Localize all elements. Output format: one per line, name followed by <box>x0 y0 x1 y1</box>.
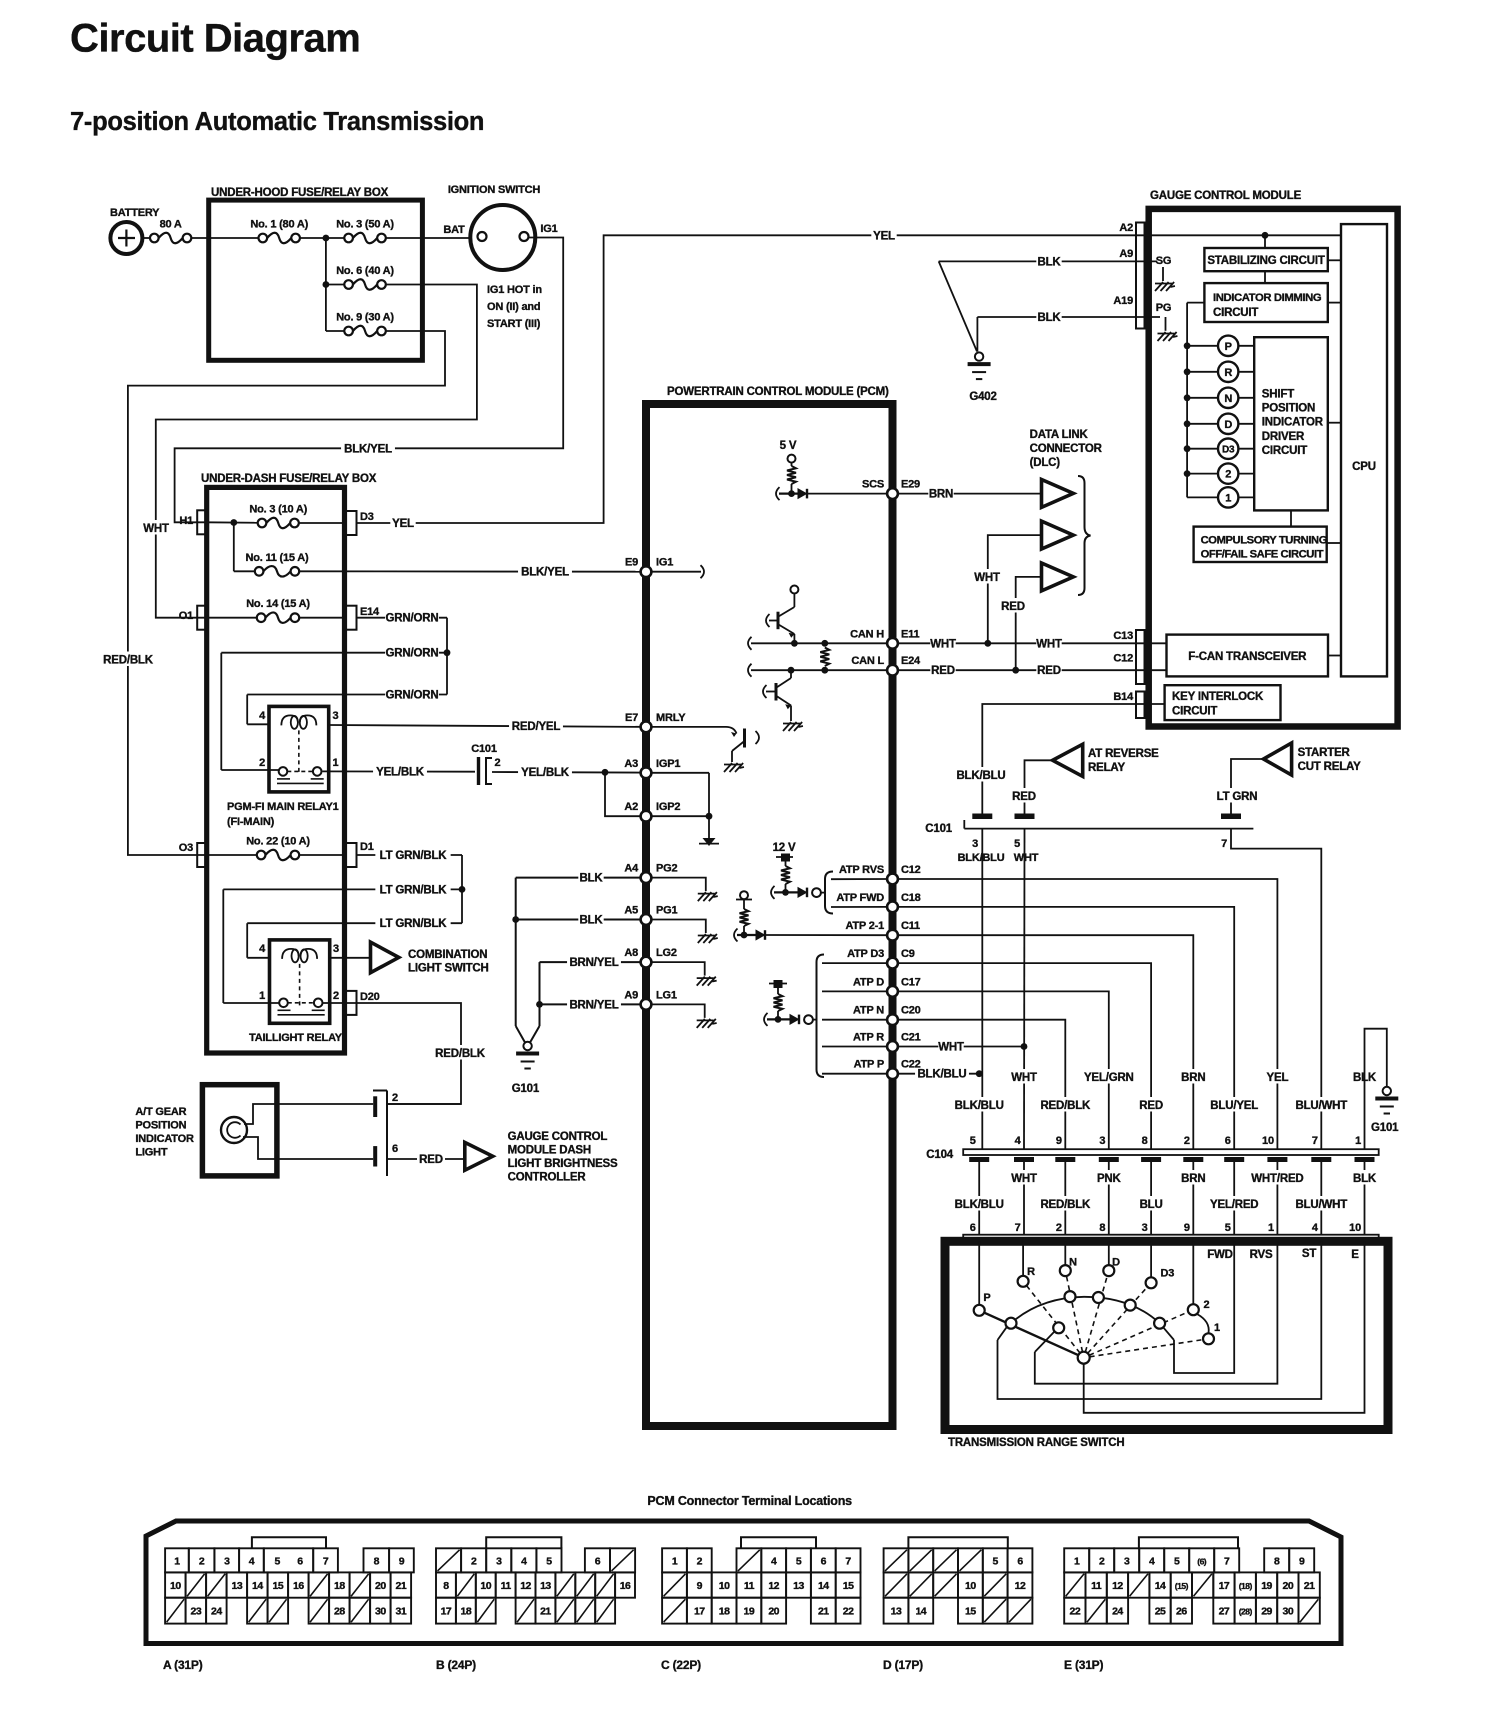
svg-text:7: 7 <box>1015 1222 1021 1234</box>
svg-text:8: 8 <box>374 1555 380 1567</box>
svg-text:11: 11 <box>744 1580 755 1592</box>
svg-text:5: 5 <box>993 1555 999 1567</box>
svg-text:N: N <box>1224 393 1232 405</box>
svg-text:WHT: WHT <box>974 572 1000 584</box>
svg-text:7: 7 <box>1221 838 1227 850</box>
svg-text:2: 2 <box>259 757 265 769</box>
svg-text:PG: PG <box>1156 302 1172 314</box>
svg-text:10: 10 <box>1349 1222 1361 1234</box>
svg-text:CIRCUIT: CIRCUIT <box>1262 445 1307 457</box>
svg-text:6: 6 <box>1225 1135 1231 1147</box>
svg-text:21: 21 <box>540 1606 551 1618</box>
svg-text:24: 24 <box>211 1606 222 1618</box>
svg-text:14: 14 <box>818 1580 829 1592</box>
svg-text:4: 4 <box>771 1555 777 1567</box>
svg-text:15: 15 <box>843 1580 854 1592</box>
svg-text:BAT: BAT <box>443 224 465 236</box>
svg-text:ATP RVS: ATP RVS <box>839 864 884 876</box>
svg-text:BLK/BLU: BLK/BLU <box>956 770 1005 782</box>
svg-text:4: 4 <box>521 1555 527 1567</box>
svg-text:12 V: 12 V <box>773 842 796 854</box>
svg-text:OFF/FAIL SAFE CIRCUIT: OFF/FAIL SAFE CIRCUIT <box>1201 549 1324 561</box>
svg-text:LIGHT BRIGHTNESS: LIGHT BRIGHTNESS <box>508 1158 618 1170</box>
svg-text:CONNECTOR: CONNECTOR <box>1030 443 1103 455</box>
svg-text:E7: E7 <box>625 712 638 724</box>
svg-text:30: 30 <box>375 1606 386 1618</box>
svg-text:LT GRN/BLK: LT GRN/BLK <box>380 884 448 896</box>
svg-text:24: 24 <box>1112 1606 1123 1618</box>
svg-text:10: 10 <box>1262 1135 1274 1147</box>
svg-text:B (24P): B (24P) <box>436 1658 476 1672</box>
svg-text:RED: RED <box>419 1154 443 1166</box>
svg-text:A2: A2 <box>1119 222 1133 234</box>
svg-text:2: 2 <box>333 990 339 1002</box>
svg-text:C13: C13 <box>1113 630 1133 642</box>
svg-text:C104: C104 <box>926 1149 953 1161</box>
svg-text:3: 3 <box>333 943 339 955</box>
svg-text:16: 16 <box>620 1580 631 1592</box>
svg-text:14: 14 <box>1155 1580 1166 1592</box>
svg-text:IGNITION SWITCH: IGNITION SWITCH <box>448 184 541 196</box>
svg-text:21: 21 <box>396 1580 407 1592</box>
svg-text:IG1: IG1 <box>540 223 557 235</box>
svg-text:1: 1 <box>333 757 339 769</box>
svg-text:CAN L: CAN L <box>851 655 884 667</box>
svg-text:A4: A4 <box>624 863 639 875</box>
svg-text:10: 10 <box>965 1580 976 1592</box>
svg-text:20: 20 <box>768 1606 779 1618</box>
svg-text:(DLC): (DLC) <box>1030 457 1061 469</box>
svg-text:RED: RED <box>1001 601 1025 613</box>
svg-text:BLU: BLU <box>1140 1199 1163 1211</box>
svg-text:PCM Connector Terminal Locatio: PCM Connector Terminal Locations <box>647 1494 852 1508</box>
svg-text:CIRCUIT: CIRCUIT <box>1213 307 1258 319</box>
svg-text:25: 25 <box>1155 1606 1166 1618</box>
svg-text:D (17P): D (17P) <box>883 1658 923 1672</box>
svg-text:14: 14 <box>915 1606 926 1618</box>
svg-text:19: 19 <box>1261 1580 1272 1592</box>
svg-text:R: R <box>1224 367 1232 379</box>
svg-text:30: 30 <box>1283 1606 1294 1618</box>
svg-text:YEL: YEL <box>392 518 414 530</box>
svg-text:IGP2: IGP2 <box>656 801 680 813</box>
svg-text:BLU/YEL: BLU/YEL <box>1210 1100 1258 1112</box>
svg-text:RED/YEL: RED/YEL <box>512 721 561 733</box>
svg-text:29: 29 <box>1261 1606 1272 1618</box>
svg-text:A/T GEAR: A/T GEAR <box>135 1106 186 1118</box>
svg-text:C9: C9 <box>901 948 915 960</box>
svg-text:A3: A3 <box>624 758 638 770</box>
svg-text:18: 18 <box>719 1606 730 1618</box>
svg-text:ON (II) and: ON (II) and <box>487 301 540 313</box>
svg-text:C (22P): C (22P) <box>661 1658 701 1672</box>
svg-text:BRN/YEL: BRN/YEL <box>569 999 618 1011</box>
svg-text:C101: C101 <box>471 743 497 755</box>
svg-text:12: 12 <box>768 1580 779 1592</box>
svg-text:80 A: 80 A <box>160 219 182 231</box>
svg-text:UNDER-HOOD FUSE/RELAY BOX: UNDER-HOOD FUSE/RELAY BOX <box>211 187 389 199</box>
svg-text:BLK: BLK <box>1037 256 1061 268</box>
svg-text:LT GRN: LT GRN <box>1217 791 1258 803</box>
svg-text:31: 31 <box>396 1606 407 1618</box>
svg-text:19: 19 <box>744 1606 755 1618</box>
svg-text:5: 5 <box>796 1555 802 1567</box>
svg-text:BRN/YEL: BRN/YEL <box>569 957 618 969</box>
svg-text:2: 2 <box>495 757 501 769</box>
svg-text:13: 13 <box>891 1606 902 1618</box>
svg-text:2: 2 <box>697 1555 703 1567</box>
svg-text:INDICATOR: INDICATOR <box>135 1133 194 1145</box>
svg-text:ATP R: ATP R <box>853 1032 884 1044</box>
svg-text:IGP1: IGP1 <box>656 758 680 770</box>
svg-text:MRLY: MRLY <box>656 712 686 724</box>
svg-text:A9: A9 <box>1119 248 1133 260</box>
svg-text:1: 1 <box>1074 1555 1080 1567</box>
svg-text:21: 21 <box>818 1606 829 1618</box>
svg-text:8: 8 <box>443 1580 449 1592</box>
svg-text:FWD: FWD <box>1207 1249 1233 1261</box>
svg-text:1: 1 <box>1355 1135 1361 1147</box>
svg-text:RELAY: RELAY <box>1088 762 1125 774</box>
svg-text:C17: C17 <box>901 976 921 988</box>
svg-text:23: 23 <box>191 1606 202 1618</box>
svg-text:15: 15 <box>273 1580 284 1592</box>
svg-text:5: 5 <box>1014 838 1020 850</box>
svg-text:BLU/WHT: BLU/WHT <box>1295 1100 1347 1112</box>
svg-text:2: 2 <box>392 1092 398 1104</box>
svg-text:C18: C18 <box>901 892 921 904</box>
svg-text:20: 20 <box>375 1580 386 1592</box>
svg-text:1: 1 <box>1214 1322 1220 1334</box>
svg-text:1: 1 <box>1268 1222 1274 1234</box>
svg-text:RED/BLK: RED/BLK <box>1040 1199 1091 1211</box>
svg-text:POWERTRAIN CONTROL MODULE (PCM: POWERTRAIN CONTROL MODULE (PCM) <box>667 386 889 398</box>
svg-text:5: 5 <box>274 1555 280 1567</box>
svg-text:DATA LINK: DATA LINK <box>1030 429 1089 441</box>
svg-text:SG: SG <box>1156 255 1172 267</box>
svg-text:TAILLIGHT RELAY: TAILLIGHT RELAY <box>249 1032 343 1044</box>
svg-text:BLK/BLU: BLK/BLU <box>917 1069 966 1081</box>
svg-text:LT GRN/BLK: LT GRN/BLK <box>380 850 448 862</box>
svg-text:LG2: LG2 <box>656 947 677 959</box>
svg-text:PG2: PG2 <box>656 863 677 875</box>
svg-text:5 V: 5 V <box>780 440 797 452</box>
svg-text:POSITION: POSITION <box>135 1120 186 1132</box>
svg-text:LT GRN/BLK: LT GRN/BLK <box>380 918 448 930</box>
svg-text:E29: E29 <box>901 479 920 491</box>
svg-text:2: 2 <box>1204 1299 1210 1311</box>
svg-text:C20: C20 <box>901 1005 921 1017</box>
svg-text:(15): (15) <box>1175 1581 1189 1591</box>
svg-text:2: 2 <box>471 1555 477 1567</box>
svg-text:BLK: BLK <box>1037 312 1061 324</box>
svg-text:1: 1 <box>1225 492 1231 504</box>
svg-text:ATP D3: ATP D3 <box>847 948 884 960</box>
svg-text:CAN H: CAN H <box>850 628 884 640</box>
svg-text:A19: A19 <box>1113 295 1133 307</box>
svg-text:RED: RED <box>1037 665 1061 677</box>
svg-text:13: 13 <box>540 1580 551 1592</box>
svg-text:5: 5 <box>970 1135 976 1147</box>
svg-text:YEL: YEL <box>873 230 895 242</box>
svg-text:ATP N: ATP N <box>853 1005 884 1017</box>
svg-text:INDICATOR: INDICATOR <box>1262 417 1324 429</box>
svg-text:3: 3 <box>1142 1222 1148 1234</box>
svg-text:PG1: PG1 <box>656 905 677 917</box>
svg-text:No. 22 (10 A): No. 22 (10 A) <box>246 836 310 848</box>
svg-text:LIGHT: LIGHT <box>135 1147 167 1159</box>
svg-text:F-CAN TRANSCEIVER: F-CAN TRANSCEIVER <box>1188 651 1307 663</box>
svg-text:13: 13 <box>232 1580 243 1592</box>
svg-text:GAUGE CONTROL: GAUGE CONTROL <box>508 1131 608 1143</box>
svg-text:4: 4 <box>1149 1555 1155 1567</box>
svg-text:2: 2 <box>199 1555 205 1567</box>
svg-text:6: 6 <box>821 1555 827 1567</box>
svg-text:WHT: WHT <box>1011 1072 1037 1084</box>
svg-text:PGM-FI MAIN RELAY1: PGM-FI MAIN RELAY1 <box>227 801 339 813</box>
svg-text:RED: RED <box>1139 1100 1163 1112</box>
svg-text:10: 10 <box>719 1580 730 1592</box>
svg-text:12: 12 <box>1015 1580 1026 1592</box>
svg-text:E11: E11 <box>901 628 919 640</box>
svg-text:IG1 HOT in: IG1 HOT in <box>487 284 542 296</box>
svg-text:6: 6 <box>1017 1555 1023 1567</box>
svg-text:No. 11 (15 A): No. 11 (15 A) <box>245 552 309 564</box>
svg-text:BLK/BLU: BLK/BLU <box>955 1199 1004 1211</box>
svg-text:7-position Automatic Transmiss: 7-position Automatic Transmission <box>70 108 484 136</box>
svg-text:C21: C21 <box>901 1032 921 1044</box>
svg-text:O3: O3 <box>179 842 193 854</box>
svg-text:RED: RED <box>1012 791 1036 803</box>
svg-text:13: 13 <box>793 1580 804 1592</box>
svg-text:INDICATOR DIMMING: INDICATOR DIMMING <box>1213 292 1322 304</box>
svg-text:9: 9 <box>1056 1135 1062 1147</box>
svg-text:2: 2 <box>1056 1222 1062 1234</box>
svg-text:GRN/ORN: GRN/ORN <box>386 648 439 660</box>
svg-text:ATP FWD: ATP FWD <box>836 892 884 904</box>
svg-text:PNK: PNK <box>1097 1173 1122 1185</box>
svg-text:D: D <box>1112 1257 1120 1269</box>
svg-text:P: P <box>983 1292 990 1304</box>
svg-text:18: 18 <box>334 1580 345 1592</box>
svg-text:CPU: CPU <box>1352 461 1376 473</box>
svg-text:BLK/YEL: BLK/YEL <box>344 443 392 455</box>
svg-text:B14: B14 <box>1113 691 1134 703</box>
svg-text:17: 17 <box>441 1606 452 1618</box>
svg-text:5: 5 <box>1225 1222 1231 1234</box>
svg-text:No. 1 (80 A): No. 1 (80 A) <box>250 219 308 231</box>
svg-text:27: 27 <box>1219 1606 1230 1618</box>
svg-text:POSITION: POSITION <box>1262 403 1315 415</box>
svg-text:R: R <box>1027 1266 1035 1278</box>
svg-text:IG1: IG1 <box>656 557 673 569</box>
svg-text:8: 8 <box>1099 1222 1105 1234</box>
svg-text:15: 15 <box>965 1606 976 1618</box>
svg-text:7: 7 <box>1224 1555 1230 1567</box>
svg-text:WHT: WHT <box>930 638 956 650</box>
svg-text:BRN: BRN <box>1181 1173 1205 1185</box>
svg-text:2: 2 <box>1184 1135 1190 1147</box>
svg-text:LIGHT SWITCH: LIGHT SWITCH <box>408 963 489 975</box>
svg-text:WHT: WHT <box>143 523 169 535</box>
svg-text:D3: D3 <box>1161 1268 1175 1280</box>
svg-text:22: 22 <box>1070 1606 1081 1618</box>
svg-text:C22: C22 <box>901 1059 921 1071</box>
svg-text:8: 8 <box>1142 1135 1148 1147</box>
svg-text:9: 9 <box>697 1580 703 1592</box>
svg-text:(6): (6) <box>1197 1556 1207 1566</box>
svg-text:No. 9 (30 A): No. 9 (30 A) <box>336 312 394 324</box>
svg-text:D1: D1 <box>360 841 374 853</box>
svg-text:GRN/ORN: GRN/ORN <box>386 690 439 702</box>
svg-text:D20: D20 <box>360 991 380 1003</box>
svg-text:21: 21 <box>1304 1580 1315 1592</box>
svg-text:G101: G101 <box>512 1083 540 1095</box>
svg-text:2: 2 <box>1225 469 1231 481</box>
svg-text:ATP 2-1: ATP 2-1 <box>845 920 884 932</box>
svg-text:BRN: BRN <box>929 489 953 501</box>
svg-text:26: 26 <box>1176 1606 1187 1618</box>
svg-text:11: 11 <box>501 1580 512 1592</box>
svg-text:C12: C12 <box>901 864 921 876</box>
svg-text:No. 3 (50 A): No. 3 (50 A) <box>336 219 394 231</box>
svg-text:14: 14 <box>252 1580 263 1592</box>
svg-text:E (31P): E (31P) <box>1064 1658 1103 1672</box>
svg-text:3: 3 <box>972 838 978 850</box>
svg-text:UNDER-DASH FUSE/RELAY BOX: UNDER-DASH FUSE/RELAY BOX <box>201 473 377 485</box>
svg-text:6: 6 <box>595 1555 601 1567</box>
svg-text:YEL/BLK: YEL/BLK <box>376 767 425 779</box>
svg-text:D: D <box>1224 419 1232 431</box>
svg-text:28: 28 <box>334 1606 345 1618</box>
svg-text:RED: RED <box>931 665 955 677</box>
svg-text:10: 10 <box>170 1580 181 1592</box>
svg-text:WHT: WHT <box>1014 852 1039 864</box>
svg-text:WHT: WHT <box>1036 638 1062 650</box>
svg-text:N: N <box>1069 1257 1077 1269</box>
svg-text:BATTERY: BATTERY <box>110 207 160 219</box>
svg-text:7: 7 <box>1312 1135 1318 1147</box>
svg-text:RED/BLK: RED/BLK <box>1040 1100 1091 1112</box>
svg-text:C101: C101 <box>925 823 952 835</box>
svg-text:7: 7 <box>323 1555 329 1567</box>
svg-text:3: 3 <box>1124 1555 1130 1567</box>
svg-text:ATP P: ATP P <box>854 1059 884 1071</box>
svg-text:DRIVER: DRIVER <box>1262 431 1305 443</box>
svg-text:SHIFT: SHIFT <box>1262 389 1294 401</box>
svg-text:(18): (18) <box>1239 1581 1253 1591</box>
svg-text:9: 9 <box>399 1555 405 1567</box>
svg-text:C11: C11 <box>901 920 920 932</box>
svg-text:2: 2 <box>1099 1555 1105 1567</box>
svg-text:3: 3 <box>496 1555 502 1567</box>
svg-text:COMBINATION: COMBINATION <box>408 949 487 961</box>
svg-text:E9: E9 <box>625 557 638 569</box>
svg-text:22: 22 <box>843 1606 854 1618</box>
svg-text:16: 16 <box>293 1580 304 1592</box>
svg-text:BLK/YEL: BLK/YEL <box>521 567 569 579</box>
svg-text:YEL/GRN: YEL/GRN <box>1084 1072 1134 1084</box>
svg-text:BLK: BLK <box>579 915 603 927</box>
svg-text:RED/BLK: RED/BLK <box>435 1048 486 1060</box>
svg-text:5: 5 <box>546 1555 552 1567</box>
svg-text:D3: D3 <box>1222 445 1235 456</box>
svg-text:1: 1 <box>672 1555 678 1567</box>
svg-text:6: 6 <box>392 1143 398 1155</box>
svg-text:20: 20 <box>1283 1580 1294 1592</box>
svg-text:3: 3 <box>333 710 339 722</box>
svg-text:6: 6 <box>297 1555 303 1567</box>
svg-text:12: 12 <box>1112 1580 1123 1592</box>
svg-text:1: 1 <box>259 990 265 1002</box>
svg-text:YEL/RED: YEL/RED <box>1210 1199 1258 1211</box>
svg-text:3: 3 <box>224 1555 230 1567</box>
svg-text:A2: A2 <box>624 801 638 813</box>
svg-text:Circuit Diagram: Circuit Diagram <box>70 17 360 61</box>
svg-text:BLK/BLU: BLK/BLU <box>958 852 1005 864</box>
svg-text:A5: A5 <box>624 905 638 917</box>
svg-text:AT REVERSE: AT REVERSE <box>1088 748 1159 760</box>
svg-text:10: 10 <box>480 1580 491 1592</box>
svg-text:12: 12 <box>520 1580 531 1592</box>
svg-text:WHT/RED: WHT/RED <box>1251 1173 1303 1185</box>
svg-text:ATP D: ATP D <box>853 976 884 988</box>
svg-text:G402: G402 <box>969 391 996 403</box>
svg-text:7: 7 <box>845 1555 851 1567</box>
svg-text:BLK: BLK <box>1353 1173 1377 1185</box>
svg-text:BLK: BLK <box>579 873 603 885</box>
svg-text:No. 3 (10 A): No. 3 (10 A) <box>249 504 307 516</box>
svg-text:A (31P): A (31P) <box>163 1658 203 1672</box>
svg-text:STARTER: STARTER <box>1298 747 1351 759</box>
svg-text:RVS: RVS <box>1250 1249 1273 1261</box>
svg-text:BLK/BLU: BLK/BLU <box>955 1100 1004 1112</box>
svg-text:No. 14 (15 A): No. 14 (15 A) <box>246 598 310 610</box>
svg-text:17: 17 <box>1219 1580 1230 1592</box>
svg-text:(28): (28) <box>1239 1607 1253 1617</box>
svg-text:SCS: SCS <box>862 479 884 491</box>
svg-text:17: 17 <box>694 1606 705 1618</box>
svg-text:9: 9 <box>1184 1222 1190 1234</box>
svg-text:18: 18 <box>461 1606 472 1618</box>
svg-text:START (III): START (III) <box>487 318 541 330</box>
svg-text:GRN/ORN: GRN/ORN <box>386 613 439 625</box>
svg-text:P: P <box>1225 341 1232 353</box>
svg-text:TRANSMISSION RANGE SWITCH: TRANSMISSION RANGE SWITCH <box>948 1437 1124 1449</box>
svg-text:KEY INTERLOCK: KEY INTERLOCK <box>1172 691 1264 703</box>
svg-text:CUT RELAY: CUT RELAY <box>1298 761 1361 773</box>
svg-text:O1: O1 <box>179 610 193 622</box>
svg-text:G101: G101 <box>1371 1122 1399 1134</box>
svg-text:6: 6 <box>970 1222 976 1234</box>
svg-text:5: 5 <box>1174 1555 1180 1567</box>
svg-text:E24: E24 <box>901 655 921 667</box>
svg-text:YEL/BLK: YEL/BLK <box>521 767 570 779</box>
svg-text:E: E <box>1351 1249 1359 1261</box>
svg-text:H1: H1 <box>179 515 193 527</box>
svg-text:ST: ST <box>1302 1248 1316 1260</box>
svg-text:YEL: YEL <box>1267 1072 1289 1084</box>
svg-text:E14: E14 <box>360 606 380 618</box>
svg-text:A9: A9 <box>624 989 638 1001</box>
svg-text:8: 8 <box>1274 1555 1280 1567</box>
svg-text:CIRCUIT: CIRCUIT <box>1172 706 1217 718</box>
svg-text:STABILIZING CIRCUIT: STABILIZING CIRCUIT <box>1207 255 1325 267</box>
svg-text:COMPULSORY TURNING: COMPULSORY TURNING <box>1201 535 1328 547</box>
svg-text:3: 3 <box>1099 1135 1105 1147</box>
svg-text:4: 4 <box>249 1555 255 1567</box>
svg-text:BRN: BRN <box>1181 1072 1205 1084</box>
